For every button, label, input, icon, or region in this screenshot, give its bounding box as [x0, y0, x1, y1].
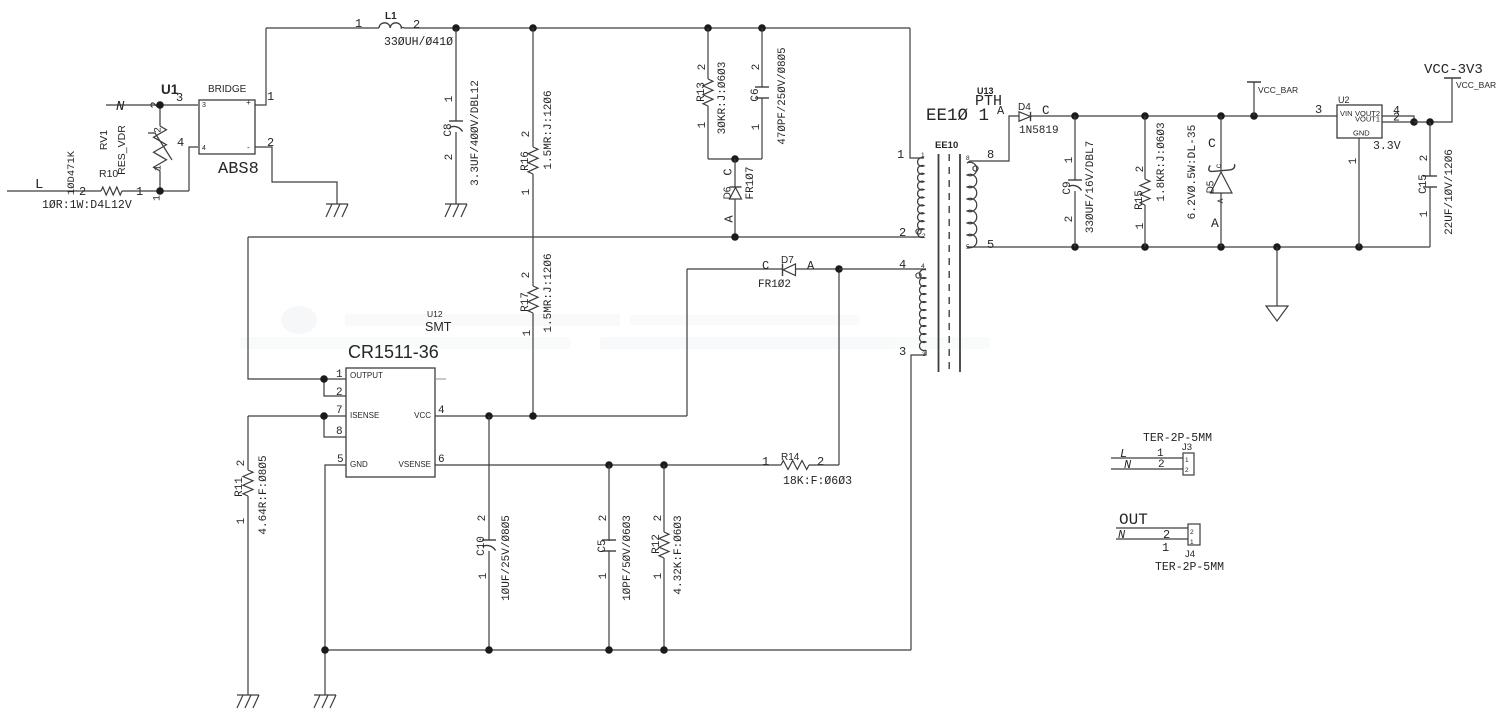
svg-text:VIN: VIN	[1340, 109, 1353, 118]
svg-text:D6: D6	[723, 186, 734, 199]
transformer core EE10	[935, 140, 960, 372]
wire J4 pin2 net OUT	[1116, 528, 1188, 542]
junction VSENSE / R12	[660, 461, 668, 469]
svg-text:RV1: RV1	[98, 130, 110, 150]
svg-text:1N5819: 1N5819	[1019, 125, 1059, 137]
wire R13 C6 bottom link	[708, 158, 762, 160]
wire R14 up to D7 anode	[838, 269, 840, 465]
capacitor C9 330UF/16V/DBL7	[1062, 116, 1097, 247]
wire J3 pin1 net L	[1111, 447, 1183, 461]
wire U2 GND down	[1358, 138, 1360, 247]
wire U2 VOUT2 pin4	[1382, 116, 1414, 122]
svg-text:2: 2	[697, 64, 709, 71]
svg-text:3: 3	[176, 91, 183, 105]
wire GND stub to ground symbol	[324, 650, 326, 695]
svg-text:D4: D4	[1018, 102, 1031, 113]
svg-text:R13: R13	[696, 82, 708, 102]
svg-text:VCC_BAR: VCC_BAR	[1258, 85, 1298, 95]
junction D6 / primary rail	[731, 233, 739, 241]
wire transformer pin5 to secondary return rail	[967, 246, 1430, 248]
svg-text:18K:F:Ø6Ø3: 18K:F:Ø6Ø3	[783, 475, 852, 488]
svg-text:2: 2	[236, 460, 248, 467]
svg-text:2: 2	[413, 18, 420, 32]
wire top rail with L1 gap	[266, 27, 379, 29]
svg-text:1: 1	[762, 455, 769, 469]
ground at U12 GND	[314, 694, 336, 696]
svg-text:U12: U12	[427, 309, 443, 319]
svg-text:A: A	[1217, 198, 1226, 203]
svg-text:C5: C5	[597, 539, 609, 552]
capacitor C8 3.3UF/400V/DBL12	[443, 28, 482, 204]
svg-text:1: 1	[1419, 210, 1431, 217]
svg-text:6: 6	[438, 454, 445, 466]
svg-text:2: 2	[899, 226, 906, 240]
junction L / RV1 pin1	[156, 187, 164, 195]
wire J4 pin1	[1116, 539, 1188, 555]
node L (AC line input)	[7, 177, 101, 193]
wire U12 GND to ground rail	[325, 465, 346, 650]
svg-text:1: 1	[236, 517, 248, 524]
svg-text:1: 1	[444, 95, 456, 102]
power symbol VCC_BAR mid	[1247, 82, 1298, 116]
junction VOUT1/VOUT2	[1410, 118, 1418, 126]
junction snubber / D6	[731, 155, 739, 163]
wire R16 to R17	[532, 174, 534, 286]
svg-text:1: 1	[751, 123, 763, 130]
svg-text:FR1Ø7: FR1Ø7	[745, 166, 757, 199]
resistor R16 1.5MR:J:1206	[520, 28, 555, 195]
svg-text:7: 7	[336, 405, 343, 417]
junction sec rail / D5	[1217, 112, 1225, 120]
svg-text:3ØKR:J:Ø6Ø3: 3ØKR:J:Ø6Ø3	[717, 62, 729, 135]
junction top rail / R16	[529, 24, 537, 32]
junction sec return / gnd	[1273, 243, 1281, 251]
svg-text:C10: C10	[476, 536, 488, 556]
wire L to RV1 junction	[122, 190, 189, 192]
resistor R13 30KR:J:0603	[696, 28, 729, 159]
svg-text:2: 2	[653, 515, 665, 522]
svg-text:2: 2	[1135, 166, 1147, 173]
bridge rectifier U1 ABS8	[161, 82, 259, 179]
svg-text:2: 2	[1419, 155, 1431, 162]
svg-text:C6: C6	[750, 88, 762, 101]
svg-text:VOUT1: VOUT1	[1355, 115, 1380, 124]
svg-text:2: 2	[521, 131, 533, 138]
svg-text:2: 2	[477, 515, 489, 522]
svg-text:R15: R15	[1134, 190, 1146, 210]
resistor R12 4.32K:F:0603	[651, 465, 685, 650]
junction VSENSE / C5	[605, 461, 613, 469]
op-amp U2 3.3V regulator	[1337, 95, 1401, 153]
svg-text:2: 2	[1158, 459, 1165, 471]
wire bridge pin2 to ground	[255, 147, 337, 204]
diode D6 FR107	[721, 159, 757, 237]
svg-text:C9: C9	[1062, 181, 1074, 194]
svg-text:4: 4	[438, 405, 445, 417]
svg-text:1: 1	[897, 148, 904, 162]
wire VCC net U12 pin4 to D7 cathode	[435, 415, 687, 417]
svg-text:A: A	[1211, 216, 1219, 231]
svg-text:8: 8	[336, 426, 343, 438]
svg-text:R17: R17	[520, 292, 532, 312]
ground at R11	[237, 694, 259, 696]
svg-text:A: A	[722, 215, 736, 223]
junction VCC / R17	[529, 412, 537, 420]
svg-text:EE10: EE10	[935, 140, 958, 151]
svg-text:2: 2	[598, 515, 610, 522]
svg-text:BRIDGE: BRIDGE	[208, 84, 247, 95]
svg-text:3: 3	[202, 102, 206, 109]
svg-text:3.3UF/4ØØV/DBL12: 3.3UF/4ØØV/DBL12	[470, 80, 482, 186]
svg-text:A: A	[807, 259, 815, 273]
svg-text:1: 1	[1064, 156, 1076, 163]
wire primary rail down to U12 pin1	[248, 237, 346, 379]
svg-text:EE1Ø 1: EE1Ø 1	[926, 106, 989, 126]
transformer aux winding 4-3	[899, 258, 926, 359]
resistor R17 1.5MR:J:1206	[520, 253, 555, 416]
junction VOUT / C15	[1426, 118, 1434, 126]
wire primary return rail	[248, 236, 924, 238]
svg-text:R12: R12	[651, 534, 663, 554]
capacitor C5 10PF/50V/0603	[597, 465, 634, 650]
svg-text:CR1511-36: CR1511-36	[348, 342, 439, 362]
svg-text:3: 3	[1315, 103, 1322, 117]
varistor RV1 10D471K	[66, 101, 172, 201]
junction sec rail / R15	[1141, 112, 1149, 120]
svg-text:4.32K:F:Ø6Ø3: 4.32K:F:Ø6Ø3	[673, 515, 685, 594]
svg-text:c: c	[1215, 163, 1224, 168]
svg-text:GND: GND	[350, 460, 368, 469]
junction gnd rail / U12 gnd	[321, 646, 329, 654]
junction N / RV1 pin2	[156, 101, 164, 109]
svg-text:2: 2	[1163, 528, 1170, 542]
junction U12 pin1/pin2	[320, 375, 328, 383]
svg-text:3.3V: 3.3V	[1373, 140, 1401, 153]
svg-text:2: 2	[1190, 529, 1194, 536]
wire transformer pin8 to D4 anode	[967, 116, 1019, 163]
svg-text:1.8KR:J:Ø6Ø3: 1.8KR:J:Ø6Ø3	[1156, 122, 1168, 201]
svg-text:1: 1	[653, 572, 665, 579]
svg-text:2: 2	[922, 233, 926, 240]
svg-text:1: 1	[521, 188, 533, 195]
svg-text:GND: GND	[1353, 129, 1370, 138]
svg-text:8: 8	[987, 148, 994, 162]
svg-text:R16: R16	[520, 151, 532, 171]
svg-text:FR1Ø2: FR1Ø2	[758, 279, 791, 291]
svg-text:1ØUF/25V/Ø8Ø5: 1ØUF/25V/Ø8Ø5	[501, 515, 513, 601]
junction sec return / R15	[1141, 243, 1149, 251]
wire transformer pin3 down to ground rail	[911, 350, 926, 650]
svg-text:2: 2	[1064, 216, 1076, 223]
wire top rail down to transformer pin1	[910, 28, 924, 158]
svg-text:2: 2	[336, 387, 343, 399]
svg-text:1.5MR:J:12Ø6: 1.5MR:J:12Ø6	[543, 90, 555, 169]
svg-text:1: 1	[154, 165, 165, 171]
svg-text:47ØPF/25ØV/Ø8Ø5: 47ØPF/25ØV/Ø8Ø5	[777, 47, 789, 144]
capacitor C15 22UF/10V/1206	[1418, 122, 1456, 247]
junction top rail / C6	[758, 24, 766, 32]
wire secondary-side ground rail	[325, 649, 911, 651]
svg-text:1: 1	[153, 195, 164, 201]
svg-text:VCC: VCC	[414, 411, 431, 420]
svg-text:1: 1	[1162, 541, 1169, 555]
svg-text:VCC-3V3: VCC-3V3	[1424, 62, 1483, 78]
svg-text:R11: R11	[234, 477, 246, 497]
svg-text:D7: D7	[781, 255, 794, 266]
svg-text:1ØPF/5ØV/Ø6Ø3: 1ØPF/5ØV/Ø6Ø3	[622, 515, 634, 601]
wire RV1 to bridge pin4	[189, 147, 198, 191]
inductor L1 330UH/0410	[355, 11, 453, 49]
svg-text:+: +	[246, 98, 251, 107]
wire VSENSE net U12 pin6	[435, 464, 781, 466]
svg-text:ISENSE: ISENSE	[350, 411, 379, 420]
resistor R11 4.64R:F:0805	[234, 416, 270, 695]
transformer secondary winding 8-5	[966, 148, 994, 252]
diode D7 FR102	[687, 255, 839, 291]
junction VCC / C10	[485, 412, 493, 420]
svg-text:3: 3	[899, 345, 906, 359]
svg-text:5: 5	[987, 238, 994, 252]
svg-text:TER-2P-5MM: TER-2P-5MM	[1155, 561, 1224, 574]
svg-text:6.2VØ.5W:DL-35: 6.2VØ.5W:DL-35	[1187, 124, 1199, 219]
capacitor C10 10UF/25V/0805	[476, 416, 513, 650]
svg-text:33ØUH/Ø41Ø: 33ØUH/Ø41Ø	[384, 36, 453, 49]
svg-text:2: 2	[267, 136, 274, 150]
svg-text:C: C	[721, 168, 735, 175]
junction sec return / U2 gnd	[1355, 243, 1363, 251]
svg-text:2: 2	[751, 64, 763, 71]
zener diode D5 6.2V0.5W:DL-35	[1187, 116, 1235, 247]
wire D4 cathode to U2 VIN	[1031, 115, 1338, 117]
svg-text:C8: C8	[443, 123, 455, 136]
resistor R15 1.8KR:J:0603	[1134, 116, 1168, 247]
svg-text:2: 2	[1185, 467, 1189, 474]
junction gnd rail / R12	[660, 646, 668, 654]
svg-text:N: N	[1118, 528, 1126, 542]
wire U2 VOUT1 pin2	[1382, 121, 1414, 123]
svg-text:1: 1	[1135, 222, 1147, 229]
svg-text:VSENSE: VSENSE	[399, 460, 431, 469]
svg-text:1: 1	[336, 369, 343, 381]
junction sec rail / VCC_BAR	[1250, 112, 1258, 120]
wire bridge pin1 to top rail	[255, 28, 266, 105]
svg-text:R14: R14	[781, 452, 800, 463]
wire U12 pin8 strap	[324, 416, 346, 437]
svg-text:1: 1	[598, 572, 610, 579]
svg-text:1: 1	[478, 572, 490, 579]
svg-text:2: 2	[79, 185, 86, 199]
svg-text:1ØD471K: 1ØD471K	[66, 150, 78, 195]
svg-text:1: 1	[1190, 539, 1194, 546]
svg-text:1: 1	[1348, 157, 1360, 164]
resistor R10 10R:1W:D4L12V	[42, 168, 143, 212]
svg-text:2: 2	[1393, 112, 1400, 125]
junction top rail / C8	[452, 24, 460, 32]
transformer designator U13 PTH EE10 1	[926, 86, 1002, 126]
junction gnd rail / C5	[605, 646, 613, 654]
wire D7 anode to transformer pin4	[839, 268, 926, 270]
svg-text:U2: U2	[1338, 95, 1350, 105]
svg-text:2: 2	[521, 272, 533, 279]
connector J4 TER-2P-5MM	[1119, 511, 1224, 574]
wire U12 pin2 strap	[324, 379, 346, 396]
svg-text:5: 5	[337, 454, 344, 466]
junction sec rail / C9	[1071, 112, 1079, 120]
junction gnd rail / C10	[485, 646, 493, 654]
svg-text:4: 4	[177, 136, 184, 150]
svg-text:2: 2	[154, 127, 165, 133]
junction D7 anode / R14 / xfmr pin4	[835, 265, 843, 273]
svg-text:J4: J4	[1185, 549, 1195, 560]
svg-text:C15: C15	[1418, 174, 1430, 194]
svg-text:VCC_BAR: VCC_BAR	[1456, 80, 1496, 90]
svg-text:33ØUF/16V/DBL7: 33ØUF/16V/DBL7	[1085, 141, 1097, 233]
svg-text:4: 4	[899, 258, 906, 272]
svg-text:C: C	[762, 259, 769, 273]
svg-text:L: L	[35, 177, 43, 193]
svg-text:1: 1	[1185, 457, 1189, 464]
svg-text:TER-2P-5MM: TER-2P-5MM	[1143, 432, 1212, 445]
svg-text:OUTPUT: OUTPUT	[350, 371, 383, 380]
junction sec return / C9	[1071, 243, 1079, 251]
junction top rail / R13	[704, 24, 712, 32]
svg-text:1: 1	[355, 17, 362, 31]
ground at C8	[445, 203, 467, 205]
junction sec return / D5	[1217, 243, 1225, 251]
wire ISENSE to R11	[248, 415, 346, 417]
svg-text:L1: L1	[385, 11, 397, 22]
svg-text:N: N	[116, 99, 125, 115]
svg-text:SMT: SMT	[425, 320, 452, 334]
transformer U13 EE10 primary winding 1-2	[897, 148, 926, 240]
svg-text:OUT: OUT	[1119, 511, 1148, 529]
svg-text:D5: D5	[1206, 180, 1217, 193]
svg-text:A: A	[997, 104, 1005, 118]
resistor R14 18K:F:0603	[762, 452, 852, 488]
svg-text:1: 1	[921, 152, 925, 159]
svg-text:4: 4	[921, 263, 925, 270]
svg-text:4.64R:F:Ø8Ø5: 4.64R:F:Ø8Ø5	[258, 455, 270, 534]
ground triangle secondary	[1266, 247, 1288, 321]
svg-text:1: 1	[697, 121, 709, 128]
svg-text:4: 4	[202, 145, 206, 152]
svg-text:ABS8: ABS8	[218, 160, 259, 179]
op-amp U12 CR1511-36 SMT controller	[336, 309, 452, 477]
svg-text:1ØR:1W:D4L12V: 1ØR:1W:D4L12V	[42, 199, 132, 212]
svg-text:N: N	[1124, 458, 1132, 472]
wire VOUT to VCC-3V3	[1414, 78, 1452, 122]
svg-text:2: 2	[444, 154, 456, 161]
capacitor C6 470PF/250V/0805	[750, 28, 789, 159]
svg-text:-: -	[247, 143, 250, 152]
svg-text:1: 1	[136, 185, 143, 199]
svg-text:2: 2	[817, 455, 824, 469]
svg-text:1: 1	[267, 90, 274, 104]
svg-text:1.5MR:J:12Ø6: 1.5MR:J:12Ø6	[543, 253, 555, 332]
svg-text:22UF/1ØV/12Ø6: 22UF/1ØV/12Ø6	[1444, 149, 1456, 235]
junction U12 pin7/pin8	[320, 412, 328, 420]
power symbol VCC-3V3	[1424, 62, 1496, 90]
svg-text:1: 1	[522, 329, 534, 336]
svg-text:RES_VDR: RES_VDR	[116, 125, 128, 175]
svg-text:C: C	[1208, 136, 1216, 151]
wire J3 pin2 net N	[1111, 458, 1183, 472]
svg-text:J3: J3	[1182, 442, 1192, 453]
node N (AC neutral input)	[106, 99, 198, 115]
connector J3 TER-2P-5MM	[1143, 432, 1212, 475]
diode D4 1N5819	[997, 102, 1059, 137]
ground at bridge pin2	[326, 203, 348, 205]
